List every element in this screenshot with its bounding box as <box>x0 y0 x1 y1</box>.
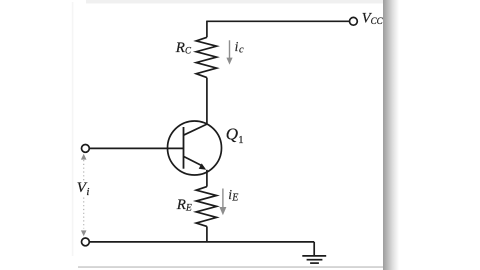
Vi dashed indicator <box>81 154 87 236</box>
wire: RE to ground rail <box>206 226 208 242</box>
current arrow ic <box>226 40 232 64</box>
page bottom edge line <box>78 266 384 268</box>
page left edge line <box>72 2 74 256</box>
wire: Vcc rail down to RC <box>206 21 208 38</box>
page right shadow <box>383 0 399 270</box>
ground <box>302 242 326 263</box>
resistor RC <box>196 37 216 77</box>
resistor RE <box>196 187 216 227</box>
current arrow iE <box>219 189 226 216</box>
terminal input bottom <box>82 238 90 246</box>
wire: emitter down to RE <box>206 170 208 187</box>
wire: RC to collector <box>206 78 208 124</box>
transistor Q1 <box>168 121 222 175</box>
terminal input top <box>82 145 90 153</box>
wire: base <box>89 147 183 149</box>
wire: bottom rail <box>89 241 314 243</box>
terminal Vcc <box>350 17 358 25</box>
page top edge band <box>86 0 398 4</box>
wire: top rail from collector branch to Vcc terminal <box>207 20 350 22</box>
